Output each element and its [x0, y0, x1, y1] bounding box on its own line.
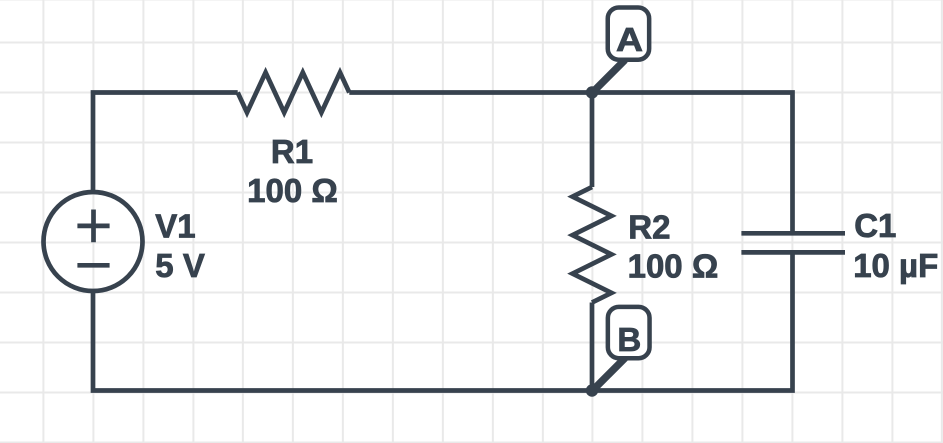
node A flag box — [608, 7, 649, 59]
node B flag box — [608, 307, 650, 358]
node B junction dot — [586, 384, 598, 396]
svg-text:100 Ω: 100 Ω — [628, 247, 719, 284]
svg-text:100 Ω: 100 Ω — [247, 172, 338, 209]
svg-text:R2: R2 — [628, 208, 670, 245]
svg-text:A: A — [616, 21, 643, 58]
svg-text:5 V: 5 V — [155, 247, 205, 284]
svg-text:10 µF: 10 µF — [853, 247, 938, 284]
wire R1 to node A — [349, 90, 592, 95]
resistor R1 — [238, 73, 350, 113]
wire node A to R2 — [590, 93, 595, 188]
node A junction dot — [586, 86, 598, 98]
capacitor C1 top plate — [741, 231, 845, 236]
resistor R2 — [573, 187, 612, 303]
capacitor C1 bottom plate — [741, 250, 845, 255]
svg-text:C1: C1 — [854, 207, 896, 244]
V1 plus sign — [77, 210, 109, 243]
svg-text:R1: R1 — [271, 133, 313, 170]
svg-text:B: B — [617, 321, 641, 358]
svg-text:V1: V1 — [155, 208, 195, 245]
V1 minus sign — [77, 263, 109, 268]
wire R2 to node B — [590, 303, 595, 391]
voltage source V1 circle — [44, 192, 143, 291]
node B flag tail — [592, 358, 625, 391]
wire V1 top lead to R1 (top-left corner) — [93, 93, 238, 193]
wire node B to C1 bottom (bottom-right corner) — [592, 252, 793, 390]
node A flag tail — [592, 60, 625, 93]
wire V1 bottom lead to node B (bottom-left corner) — [93, 291, 592, 391]
wire node A to C1 top (top-right corner) — [592, 93, 793, 234]
